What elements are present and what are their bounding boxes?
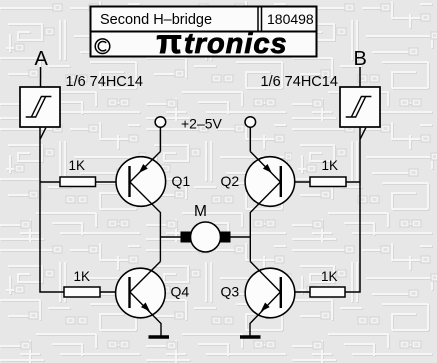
svg-text:Q2: Q2 <box>221 173 240 189</box>
Q4 emitter lead <box>130 292 161 336</box>
Q4 emitter arrow (NPN, pointing out) <box>141 303 150 312</box>
title block outer frame <box>91 7 317 57</box>
Q4 base bar <box>128 277 130 308</box>
inverter slash below box A <box>40 128 46 139</box>
svg-text:tronics: tronics <box>184 28 288 60</box>
transistor Q3 (NPN) circle <box>245 268 295 318</box>
svg-text:π: π <box>157 23 182 60</box>
wire base Q4 (resistor to transistor) <box>100 291 128 293</box>
wire junction to top-right resistor <box>346 181 360 183</box>
Q1 emitter lead <box>130 152 161 183</box>
motor wire left <box>160 236 181 238</box>
wire B to box <box>359 67 361 87</box>
Q3 collector lead <box>250 262 280 293</box>
title block cell divider (double line) <box>257 7 259 32</box>
resistor R top-right 1K <box>310 177 346 187</box>
svg-text:Q3: Q3 <box>221 284 240 300</box>
ground left <box>149 335 170 338</box>
wire base Q2 (transistor to resistor) <box>282 181 310 183</box>
hysteresis symbol B <box>346 97 372 118</box>
supply wire left <box>159 128 161 152</box>
transistor Q1 (PNP) circle <box>116 157 166 207</box>
transistor Q4 (NPN) circle <box>116 268 166 318</box>
schmitt inverter box B (1/6 74HC14) <box>340 87 380 127</box>
supply terminal circle left <box>155 117 166 128</box>
Q2 base bar <box>280 166 282 197</box>
Q4 collector lead <box>130 262 161 293</box>
svg-text:B: B <box>354 48 367 70</box>
wire A to box <box>40 67 42 87</box>
inverter slash below box B <box>360 128 366 139</box>
svg-text:+2–5V: +2–5V <box>181 116 223 132</box>
Q1 emitter arrow (PNP, pointing in) <box>139 164 148 173</box>
svg-text:180498: 180498 <box>267 11 314 27</box>
svg-text:Q1: Q1 <box>172 173 191 189</box>
Q2 emitter lead <box>250 152 280 183</box>
wire base Q3 (transistor to resistor) <box>282 291 311 293</box>
pitronics logo <box>157 23 288 60</box>
wire base Q1 (resistor to transistor) <box>96 181 129 183</box>
svg-text:1K: 1K <box>322 158 339 173</box>
wire junction to top-left resistor <box>40 181 60 183</box>
copyright symbol <box>95 39 110 54</box>
transistor Q2 (PNP) circle <box>245 157 295 207</box>
title block row divider <box>91 31 317 33</box>
right vertical wire from box B <box>345 127 360 292</box>
Q3 base bar <box>280 277 282 308</box>
ground right <box>240 335 261 338</box>
supply wire right <box>249 128 251 152</box>
svg-text:1/6 74HC14: 1/6 74HC14 <box>66 74 143 90</box>
resistor R bottom-right 1K <box>310 287 345 297</box>
Q1 base bar <box>128 166 130 197</box>
hysteresis symbol A <box>26 97 52 118</box>
schmitt inverter box A (1/6 74HC14) <box>20 87 60 127</box>
svg-text:1K: 1K <box>69 158 86 173</box>
motor M circle <box>191 222 221 252</box>
svg-text:1K: 1K <box>321 269 338 284</box>
Q2 collector lead <box>250 182 280 262</box>
svg-text:1/6 74HC14: 1/6 74HC14 <box>261 74 338 90</box>
svg-text:1K: 1K <box>74 269 91 284</box>
Q3 emitter arrow (NPN, pointing out) <box>261 303 270 312</box>
resistor R top-left 1K <box>60 177 96 187</box>
resistor R bottom-left 1K <box>64 287 100 297</box>
motor brush left <box>181 232 192 243</box>
Q3 emitter lead <box>250 292 280 336</box>
supply terminal circle right <box>245 117 256 128</box>
left vertical wire from box A <box>40 127 64 292</box>
svg-text:A: A <box>35 48 49 70</box>
Q1 collector lead <box>130 182 161 262</box>
svg-text:M: M <box>194 203 207 220</box>
Q2 emitter arrow (PNP, pointing in) <box>263 164 272 173</box>
motor brush right <box>220 232 231 243</box>
motor wire right <box>230 236 250 238</box>
svg-text:Q4: Q4 <box>171 284 190 300</box>
